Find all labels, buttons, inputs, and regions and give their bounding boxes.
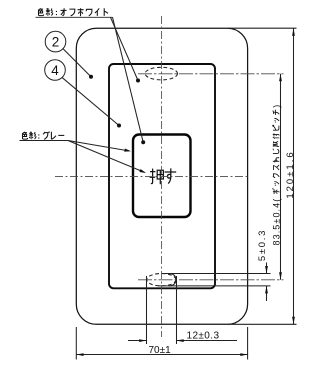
svg-text:4: 4 — [51, 63, 59, 78]
dimension 5 text — [257, 229, 268, 261]
leader dot on button — [141, 140, 145, 144]
dimension 83.5 text — [271, 105, 281, 246]
bottom slot bottom extension line — [158, 285, 271, 287]
gray leader 1 — [68, 141, 129, 151]
svg-text:12±0.3: 12±0.3 — [187, 331, 220, 342]
balloon 2 — [45, 31, 66, 52]
svg-text:83.5±0.4(: 83.5±0.4( — [271, 198, 281, 246]
dimension 120 text — [285, 150, 296, 198]
dimension 5±0.3 line lower — [266, 286, 268, 301]
label: color gray — [22, 132, 64, 140]
balloon 4 — [45, 60, 66, 81]
dimension 12 line left tail — [128, 340, 147, 342]
dimension 5±0.3 line upper — [266, 263, 268, 274]
button label 押す — [150, 168, 177, 184]
dimension 83.5 line — [280, 74, 282, 280]
dimension 83.5 top arrow — [279, 74, 282, 82]
top slot centerline — [138, 73, 284, 75]
dimension 5 upper arrow — [265, 266, 268, 274]
balloon 4 leader dot — [117, 124, 121, 128]
dimension 83.5 bottom arrow — [279, 272, 282, 280]
dimension 70 line — [76, 354, 247, 356]
extension line slot right — [176, 276, 178, 344]
bottom slot top extension line — [162, 273, 271, 275]
leader to frame surface — [111, 17, 139, 80]
extension line plate bottom — [228, 323, 297, 325]
bottom slot right cap (solid) — [169, 274, 176, 286]
dimension 12 left arrow — [139, 339, 146, 342]
dimension 120 top arrow — [292, 28, 295, 36]
plate outer outline — [76, 28, 247, 324]
svg-text:120±1.6: 120±1.6 — [285, 150, 296, 198]
bottom screw slot (dashed ellipse) — [147, 274, 176, 286]
dimension 120±1.6 line — [293, 28, 295, 324]
svg-text:70±1: 70±1 — [149, 345, 172, 356]
balloon 4 leader — [62, 78, 119, 126]
extension line slot left — [146, 276, 148, 344]
label: color off-white — [38, 8, 108, 16]
leader dot on frame — [136, 79, 140, 83]
dimension 12 right arrow — [177, 339, 184, 342]
dimension 70 left arrow — [76, 353, 83, 356]
svg-text:2: 2 — [52, 34, 60, 49]
dimension 70 right arrow — [240, 353, 247, 356]
balloon 2 leader — [63, 49, 91, 77]
push button outline — [133, 135, 191, 218]
horizontal centerline — [55, 176, 248, 178]
mounting frame outline — [109, 64, 215, 288]
dimension 12 line right tail — [177, 340, 238, 342]
gray leader 2 arrowhead — [139, 169, 146, 173]
extension line 70 right — [247, 327, 249, 360]
vertical centerline — [161, 16, 163, 337]
svg-text:): ) — [271, 105, 281, 108]
gray leader 1 arrowhead — [124, 149, 131, 152]
leader to button surface — [113, 17, 144, 142]
label underline (off-white) — [36, 16, 113, 18]
top screw slot (dashed ellipse) — [145, 67, 177, 80]
balloon 2 leader dot — [89, 75, 93, 79]
gray leader 2 — [68, 141, 145, 173]
bottom slot centerline — [138, 279, 284, 281]
svg-text:5±0.3: 5±0.3 — [257, 229, 268, 261]
dimension 120 bottom arrow — [292, 317, 295, 325]
extension line plate top — [228, 27, 297, 29]
dimension 5 lower arrow — [265, 286, 268, 294]
extension line 70 left — [75, 327, 77, 360]
label underline (gray) — [20, 140, 69, 142]
